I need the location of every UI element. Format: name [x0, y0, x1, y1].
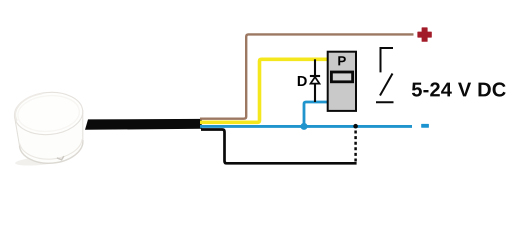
- sensor body (white puck, cylinder side): [13, 90, 87, 167]
- wire blue branch to P box: [304, 102, 328, 126]
- label 5-24 V DC: [412, 82, 506, 96]
- wire dashed black: [354, 129, 357, 162]
- wire yellow: [200, 59, 328, 122]
- label - (minus, blue): [421, 124, 429, 128]
- cable (black): [85, 119, 202, 130]
- switch contact top terminal: [381, 48, 394, 72]
- label D: [298, 76, 307, 86]
- node blue junction: [301, 123, 308, 130]
- wire brown: [200, 34, 414, 118]
- switch bottom terminal: [376, 101, 394, 103]
- sensor seam line: [20, 138, 84, 162]
- label + (plus, dark red): [417, 27, 431, 41]
- relay box P: [328, 52, 356, 111]
- diode D leads: [314, 59, 316, 76]
- label P: [338, 56, 346, 65]
- sensor shadow: [15, 155, 66, 167]
- sensor rim inner shade (upper-left): [14, 93, 45, 120]
- diode D symbol: [310, 75, 320, 77]
- relay coil inner rectangle: [331, 72, 352, 82]
- sensor top face: [13, 90, 85, 138]
- sensor bottom rim shading: [19, 140, 84, 166]
- wire black (from cable to bottom loop): [201, 130, 357, 164]
- wire blue (minus rail): [200, 125, 412, 128]
- node dot on blue rail: [353, 124, 358, 129]
- switch blade: [380, 74, 393, 96]
- sensor notch: [57, 156, 64, 160]
